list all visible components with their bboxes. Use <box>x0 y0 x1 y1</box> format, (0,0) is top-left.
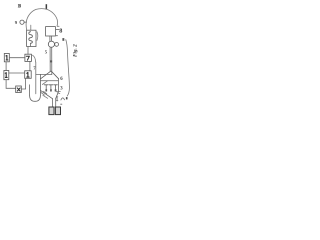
svg-text:Fig. 2: Fig. 2 <box>73 44 79 57</box>
bin 2 <box>55 107 60 115</box>
pipe from box to valve <box>50 36 52 41</box>
label lead curve M1 <box>33 55 36 62</box>
label 8 lead <box>56 29 59 31</box>
glyph M2 <box>27 73 29 78</box>
wire loop (large circulation loop) <box>26 9 57 31</box>
box M2 <box>25 71 32 79</box>
vessel cone roof <box>41 71 59 79</box>
bin tick <box>61 103 62 105</box>
box U8 (spray head box) <box>46 27 56 36</box>
wire L2 down <box>6 80 16 89</box>
condenser coil <box>29 32 33 44</box>
box L1 <box>4 54 9 62</box>
wire loop end hook <box>57 25 59 27</box>
box L2 <box>4 71 9 80</box>
bin 1 <box>49 107 54 115</box>
node tick 1 (top of loop) <box>46 4 48 9</box>
flask right wall <box>39 74 41 95</box>
outlet pipes <box>53 99 56 108</box>
box L3 <box>16 86 22 93</box>
outlet tick <box>56 100 58 102</box>
vessel V bottom right <box>56 92 59 99</box>
junction tick on pipe <box>50 60 52 62</box>
wire L3 to M2 <box>21 78 25 89</box>
wire pump to loop <box>24 21 26 23</box>
vessel internal slope <box>42 81 47 85</box>
vessel bottom right ticks <box>56 92 60 94</box>
flask left wall <box>29 85 31 95</box>
right inlet tick <box>56 97 57 101</box>
glyph L2 <box>5 73 7 78</box>
vessel right wall <box>58 79 60 92</box>
stem feet <box>45 89 47 91</box>
dot label <box>66 97 68 99</box>
vessel V bottom left <box>41 91 53 99</box>
tick near box corner <box>56 35 57 37</box>
glyph M1 <box>26 56 29 60</box>
flask bottom arc <box>30 95 41 101</box>
vessel level line <box>41 80 58 82</box>
condenser box C1 <box>27 30 36 46</box>
glyph L1 <box>6 56 8 61</box>
hatch marks <box>41 91 48 98</box>
box M1 <box>25 54 32 61</box>
wire M1 to M2 <box>29 61 31 70</box>
wire L2 to M2 <box>9 72 25 74</box>
figure brace <box>66 40 70 96</box>
svg-text:18: 18 <box>17 4 21 10</box>
wire L1 to M1 <box>9 57 25 59</box>
wire M1 lead down / dip tube <box>35 62 37 94</box>
wire across to vessel <box>36 73 52 75</box>
svg-text:8: 8 <box>59 28 62 35</box>
wire loop inlet stub <box>30 25 32 30</box>
pump P1 (small circle) <box>20 20 24 24</box>
valve V1 circle <box>48 41 54 47</box>
pipe from valve to vessel <box>50 47 52 74</box>
valve actuator circle <box>55 43 59 47</box>
glyph L3 <box>17 88 20 91</box>
wire L1 to L2 <box>5 62 7 71</box>
coil tail <box>29 43 31 46</box>
figure brace serif <box>62 38 64 41</box>
label lead paren (condenser) <box>36 32 39 41</box>
handle arc <box>61 98 65 100</box>
vessel internals T bars <box>44 85 57 91</box>
wire condenser to M1 <box>27 47 29 55</box>
